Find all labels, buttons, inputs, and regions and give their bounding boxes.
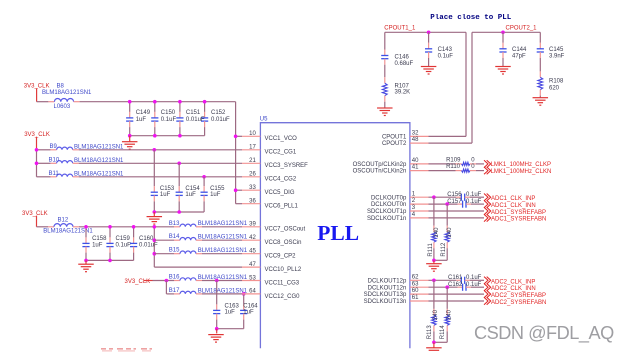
svg-text:63: 63: [412, 281, 419, 287]
svg-text:BLM18AG121SN1: BLM18AG121SN1: [198, 275, 248, 281]
svg-text:C146: C146: [395, 55, 410, 61]
svg-text:C160: C160: [139, 236, 154, 242]
svg-text:B11: B11: [49, 171, 60, 177]
svg-text:ADC1_SYSREFABP: ADC1_SYSREFABP: [491, 210, 546, 216]
svg-text:1uF: 1uF: [136, 117, 147, 123]
svg-text:21: 21: [249, 158, 256, 164]
svg-text:VCC11_CG3: VCC11_CG3: [265, 280, 300, 286]
svg-text:0.1uF: 0.1uF: [438, 54, 454, 60]
svg-text:1uF: 1uF: [225, 310, 236, 316]
svg-text:CPOUT2: CPOUT2: [382, 141, 407, 147]
svg-text:61: 61: [412, 295, 419, 301]
svg-text:VCC2_CG1: VCC2_CG1: [265, 150, 297, 156]
svg-text:CPOUT2_1: CPOUT2_1: [506, 26, 538, 32]
svg-text:1uF: 1uF: [160, 192, 171, 198]
svg-text:B13: B13: [169, 221, 180, 227]
svg-text:BLM18AG121SN1: BLM18AG121SN1: [42, 90, 92, 96]
svg-text:240: 240: [433, 309, 439, 320]
svg-text:C162: C162: [448, 282, 463, 288]
svg-text:BLM18AG121SN1: BLM18AG121SN1: [198, 288, 248, 294]
svg-text:C152: C152: [211, 110, 226, 116]
svg-text:36: 36: [249, 199, 256, 205]
svg-text:4: 4: [412, 212, 416, 218]
svg-text:C151: C151: [186, 110, 201, 116]
svg-text:0: 0: [471, 157, 475, 163]
svg-text:B14: B14: [169, 234, 180, 240]
svg-text:SDCLKOUT1n: SDCLKOUT1n: [367, 216, 406, 222]
svg-text:39: 39: [249, 222, 256, 228]
svg-text:SDCLKOUT13n: SDCLKOUT13n: [364, 299, 407, 305]
svg-text:240: 240: [446, 309, 452, 320]
svg-text:C144: C144: [512, 47, 527, 53]
svg-text:B10: B10: [49, 158, 60, 164]
svg-text:VCC9_CP2: VCC9_CP2: [265, 254, 297, 260]
svg-text:2: 2: [412, 198, 416, 204]
svg-text:VCC5_DIG: VCC5_DIG: [265, 190, 295, 196]
svg-text:3.9nF: 3.9nF: [549, 54, 565, 60]
svg-text:3: 3: [412, 205, 416, 211]
svg-text:C163: C163: [225, 303, 240, 309]
svg-text:0.01uF: 0.01uF: [211, 117, 230, 123]
svg-text:C153: C153: [160, 186, 175, 192]
svg-text:ADC1_CLK_INN: ADC1_CLK_INN: [491, 203, 536, 209]
svg-text:47pF: 47pF: [512, 54, 526, 60]
svg-text:OSCOUTn/CLKin2n: OSCOUTn/CLKin2n: [353, 169, 407, 175]
svg-text:CPOUT1: CPOUT1: [382, 135, 407, 141]
svg-text:B15: B15: [169, 248, 180, 254]
svg-text:C155: C155: [210, 186, 225, 192]
svg-text:0.01uF: 0.01uF: [139, 242, 158, 248]
svg-text:C150: C150: [161, 110, 176, 116]
svg-text:BLM18AG121SN1: BLM18AG121SN1: [198, 221, 248, 227]
svg-text:45: 45: [249, 249, 256, 255]
svg-text:VCC12_CG0: VCC12_CG0: [265, 294, 301, 300]
svg-text:62: 62: [412, 274, 419, 280]
svg-text:17: 17: [249, 145, 256, 151]
svg-text:L0603: L0603: [54, 104, 71, 110]
svg-text:BLM18AG121SN1: BLM18AG121SN1: [74, 144, 124, 150]
svg-text:53: 53: [249, 275, 256, 281]
svg-text:C161: C161: [448, 275, 463, 281]
svg-text:LMK1_100MHz_CLKN: LMK1_100MHz_CLKN: [491, 169, 552, 175]
svg-text:DCLKOUT12p: DCLKOUT12p: [368, 278, 407, 284]
svg-text:VCC10_PLL2: VCC10_PLL2: [265, 267, 302, 273]
svg-text:OSCOUTp/CLKin2p: OSCOUTp/CLKin2p: [353, 162, 407, 168]
svg-text:B16: B16: [169, 275, 180, 281]
svg-text:240: 240: [447, 227, 453, 238]
svg-text:C159: C159: [116, 236, 131, 242]
svg-text:0.68uF: 0.68uF: [395, 61, 414, 67]
svg-text:VCC1_VCO: VCC1_VCO: [265, 136, 298, 142]
svg-text:0.1uF: 0.1uF: [466, 282, 482, 288]
svg-text:64: 64: [249, 289, 256, 295]
svg-text:1uF: 1uF: [210, 192, 221, 198]
svg-text:CSDN @FDL_AQ: CSDN @FDL_AQ: [474, 323, 614, 344]
svg-text:41: 41: [412, 165, 419, 171]
svg-text:DCLKOUT12n: DCLKOUT12n: [368, 285, 407, 291]
svg-text:VCC3_SYSREF: VCC3_SYSREF: [265, 163, 309, 169]
svg-text:0.1uF: 0.1uF: [466, 192, 482, 198]
svg-text:ADC1_SYSREFABN: ADC1_SYSREFABN: [491, 217, 546, 223]
svg-text:B17: B17: [169, 288, 180, 294]
svg-text:1uF: 1uF: [185, 192, 196, 198]
svg-text:BLM18AG121SN1: BLM18AG121SN1: [74, 158, 124, 164]
svg-text:R112: R112: [441, 242, 447, 257]
svg-text:PLL: PLL: [317, 221, 359, 245]
svg-text:R109: R109: [446, 157, 461, 163]
svg-text:VCC6_PLL1: VCC6_PLL1: [265, 204, 299, 210]
svg-text:40: 40: [412, 158, 419, 164]
svg-text:620: 620: [549, 85, 560, 91]
svg-text:CPOUT1_1: CPOUT1_1: [384, 26, 416, 32]
svg-text:0: 0: [471, 164, 475, 170]
svg-text:C164: C164: [243, 303, 258, 309]
svg-text:B12: B12: [58, 218, 69, 224]
svg-text:48: 48: [412, 137, 419, 143]
svg-text:SDCLKOUT13p: SDCLKOUT13p: [364, 292, 407, 298]
svg-text:1uF: 1uF: [92, 242, 103, 248]
svg-text:C143: C143: [438, 47, 453, 53]
svg-text:10: 10: [249, 131, 256, 137]
svg-text:C157: C157: [447, 199, 462, 205]
svg-text:C154: C154: [185, 186, 200, 192]
svg-text:U5: U5: [260, 116, 268, 122]
svg-text:BLM18AG121SN1: BLM18AG121SN1: [74, 171, 124, 177]
svg-text:R110: R110: [446, 164, 461, 170]
svg-text:R111: R111: [428, 242, 434, 256]
svg-text:C158: C158: [92, 236, 107, 242]
svg-text:R114: R114: [440, 325, 446, 340]
svg-text:0.01uF: 0.01uF: [186, 117, 205, 123]
svg-text:R113: R113: [427, 325, 433, 340]
svg-text:39.2K: 39.2K: [395, 90, 411, 96]
svg-text:B8: B8: [57, 83, 65, 89]
svg-text:0.1uF: 0.1uF: [161, 117, 177, 123]
svg-text:60: 60: [412, 288, 419, 294]
svg-text:R108: R108: [549, 79, 564, 85]
svg-text:ADC2_SYSREFABN: ADC2_SYSREFABN: [491, 300, 546, 306]
svg-text:3V3_CLK: 3V3_CLK: [22, 211, 48, 217]
svg-text:C156: C156: [447, 192, 462, 198]
svg-text:Place close to PLL: Place close to PLL: [430, 14, 512, 22]
svg-text:DCLKOUT0p: DCLKOUT0p: [371, 195, 407, 201]
svg-text:C145: C145: [549, 47, 564, 53]
svg-text:VCC8_OSCin: VCC8_OSCin: [265, 240, 302, 246]
svg-text:ADC2_CLK_INP: ADC2_CLK_INP: [491, 279, 535, 285]
svg-text:1uF: 1uF: [243, 310, 254, 316]
svg-text:BLM18AG121SN1: BLM18AG121SN1: [198, 234, 248, 240]
svg-text:ADC2_SYSREFABP: ADC2_SYSREFABP: [491, 293, 546, 299]
svg-text:0.1uF: 0.1uF: [466, 199, 482, 205]
svg-text:42: 42: [249, 235, 256, 241]
svg-text:33: 33: [249, 185, 256, 191]
svg-text:ADC2_CLK_INN: ADC2_CLK_INN: [491, 286, 536, 292]
svg-text:3V3_CLK: 3V3_CLK: [125, 279, 151, 285]
svg-text:0.1uF: 0.1uF: [116, 242, 132, 248]
svg-text:VCC7_OSCout: VCC7_OSCout: [265, 227, 306, 233]
svg-text:SDCLKOUT1p: SDCLKOUT1p: [367, 209, 407, 215]
svg-text:26: 26: [249, 172, 256, 178]
svg-text:VCC4_CG2: VCC4_CG2: [265, 177, 297, 183]
svg-text:0.1uF: 0.1uF: [466, 275, 482, 281]
svg-text:240: 240: [434, 227, 440, 238]
svg-text:C149: C149: [136, 110, 151, 116]
svg-text:B9: B9: [50, 144, 58, 150]
svg-text:32: 32: [412, 131, 419, 137]
svg-text:BLM18AG121SN1: BLM18AG121SN1: [198, 248, 248, 254]
svg-text:47: 47: [249, 262, 256, 268]
svg-text:DCLKOUT0n: DCLKOUT0n: [371, 202, 406, 208]
svg-text:1: 1: [412, 191, 416, 197]
svg-text:LMK1_100MHz_CLKP: LMK1_100MHz_CLKP: [491, 162, 551, 168]
svg-text:ADC1_CLK_INP: ADC1_CLK_INP: [491, 196, 535, 202]
